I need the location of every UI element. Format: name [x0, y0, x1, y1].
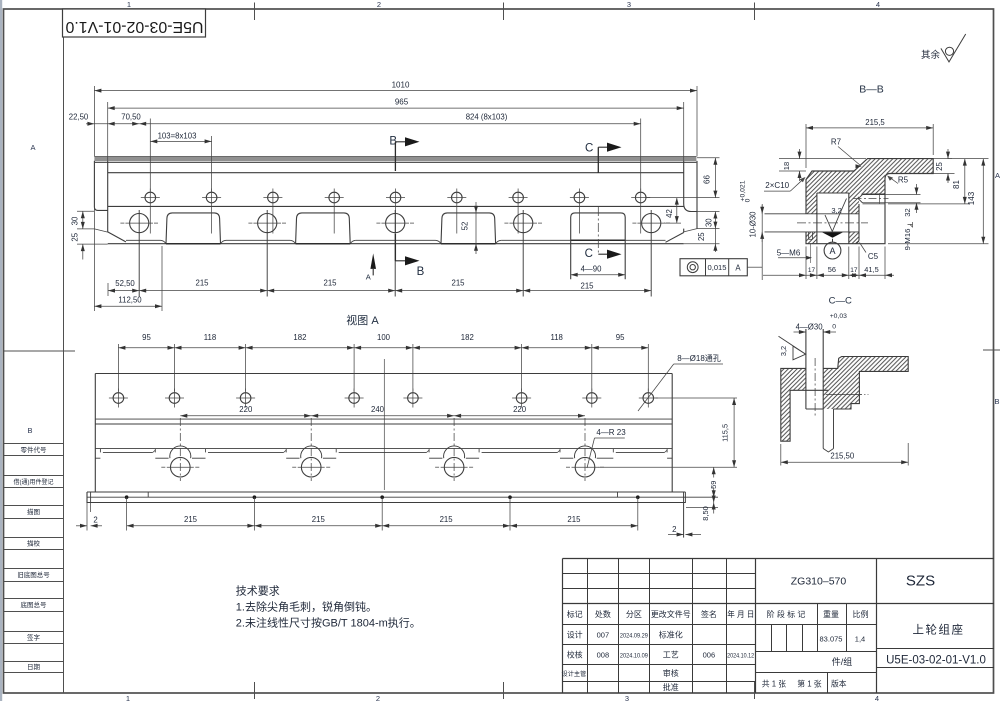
B-B outline — [806, 159, 933, 244]
view A base line stubs — [95, 457, 100, 459]
svg-text:0: 0 — [832, 323, 836, 330]
view A 8 through holes D18 — [113, 393, 124, 404]
datum feature box 0,015 A — [680, 259, 747, 276]
svg-text:215: 215 — [440, 515, 454, 524]
inverted drawing number box — [63, 9, 206, 37]
svg-text:B: B — [27, 426, 32, 435]
C-C hole D30 edges — [805, 329, 807, 409]
svg-text:2: 2 — [93, 516, 97, 525]
view A hole extension lines — [117, 344, 119, 392]
view A flange reference dots — [125, 495, 129, 499]
C-C centerline — [814, 358, 816, 416]
view arrow A — [370, 253, 376, 269]
svg-text:A: A — [829, 246, 835, 256]
svg-text:42: 42 — [665, 209, 674, 218]
svg-text:借(通)用件登记: 借(通)用件登记 — [14, 478, 54, 486]
svg-text:25: 25 — [697, 232, 706, 241]
svg-text:C: C — [585, 142, 593, 154]
svg-text:1,4: 1,4 — [855, 634, 865, 643]
svg-text:81: 81 — [952, 180, 961, 189]
view A slot centerlines — [179, 418, 181, 481]
view A 215 dims bottom — [86, 503, 88, 531]
svg-text:底图总号: 底图总号 — [21, 600, 48, 609]
svg-text:3: 3 — [625, 694, 629, 701]
dimension 52,50 — [108, 290, 139, 292]
svg-text:2.未注线性尺寸按GB/T 1804-m执行。: 2.未注线性尺寸按GB/T 1804-m执行。 — [236, 615, 421, 629]
B-B M6 tapped hole — [808, 232, 810, 239]
dimension 824 (8x103) — [139, 123, 641, 125]
view A dim 2 right — [668, 534, 684, 536]
B-B step face and C5 chamfer — [858, 204, 860, 241]
svg-text:+0,03: +0,03 — [830, 313, 847, 320]
svg-text:52: 52 — [461, 222, 470, 231]
svg-text:版本: 版本 — [831, 679, 847, 689]
svg-text:8—Ø18通孔: 8—Ø18通孔 — [677, 353, 721, 363]
svg-text:215: 215 — [567, 515, 581, 524]
C-C slot below hole — [822, 409, 824, 449]
svg-text:B: B — [994, 397, 999, 406]
svg-text:824 (8x103): 824 (8x103) — [466, 112, 508, 121]
C-C hatched main block — [823, 357, 908, 410]
svg-text:处数: 处数 — [595, 609, 611, 619]
svg-text:215: 215 — [323, 279, 337, 288]
svg-text:标准化: 标准化 — [659, 630, 683, 640]
svg-text:2024.10.09: 2024.10.09 — [620, 652, 649, 659]
zone tick marks — [254, 3, 256, 21]
right end profile — [692, 161, 698, 212]
view A dims 220/240/220 — [180, 415, 585, 417]
svg-text:U5E-03-02-01-V1.0: U5E-03-02-01-V1.0 — [886, 655, 986, 667]
svg-text:第 1 张: 第 1 张 — [797, 679, 821, 689]
svg-text:215: 215 — [451, 279, 465, 288]
svg-text:阶 段 标 记: 阶 段 标 记 — [767, 609, 806, 619]
svg-text:118: 118 — [204, 333, 216, 342]
svg-text:4: 4 — [876, 0, 880, 9]
svg-text:215: 215 — [195, 279, 209, 288]
view A dim 2 left — [76, 525, 87, 527]
svg-text:4: 4 — [875, 694, 879, 701]
svg-text:41,5: 41,5 — [864, 265, 878, 274]
svg-text:重量: 重量 — [823, 609, 839, 619]
svg-text:1010: 1010 — [392, 81, 410, 90]
svg-text:3,2: 3,2 — [779, 346, 788, 356]
view A body outline — [95, 373, 672, 375]
svg-text:215,5: 215,5 — [865, 118, 885, 127]
svg-text:A: A — [735, 263, 741, 272]
svg-text:70,50: 70,50 — [121, 113, 141, 122]
svg-text:其余: 其余 — [921, 49, 941, 61]
extension lines bottom — [93, 161, 95, 311]
row line (top of bottom flange) — [108, 205, 684, 207]
svg-text:B: B — [417, 266, 425, 278]
dimension 215,5 — [805, 124, 807, 168]
svg-text:1: 1 — [127, 0, 131, 9]
svg-text:52,50: 52,50 — [115, 279, 135, 288]
svg-text:182: 182 — [293, 333, 306, 342]
svg-text:视图 A: 视图 A — [346, 313, 379, 327]
svg-text:0,015: 0,015 — [707, 263, 726, 272]
dimension 30 right — [697, 211, 720, 213]
view A top dim chain — [118, 347, 648, 349]
view A large circles R23 — [171, 457, 191, 477]
B-B hatched section — [806, 159, 933, 244]
view A top land line (full) — [95, 448, 672, 450]
dimension 66 — [697, 157, 720, 159]
bottom tabs — [166, 213, 221, 244]
svg-text:+0,021: +0,021 — [740, 180, 747, 201]
svg-text:年 月 日: 年 月 日 — [727, 609, 754, 619]
svg-text:118: 118 — [550, 333, 562, 342]
C-C dimension 215,50 — [780, 444, 782, 466]
svg-text:旧底图总号: 旧底图总号 — [17, 570, 50, 579]
svg-text:220: 220 — [239, 405, 253, 414]
svg-text:A: A — [366, 272, 371, 281]
svg-text:4—90: 4—90 — [581, 265, 602, 274]
view A centerline — [383, 359, 385, 490]
view A dim 59 — [713, 467, 715, 502]
svg-text:审核: 审核 — [663, 668, 679, 678]
svg-text:2024.10.12: 2024.10.12 — [727, 652, 754, 659]
svg-text:C—C: C—C — [829, 295, 852, 306]
svg-text:2: 2 — [376, 694, 380, 701]
left margin attached boxes — [4, 443, 64, 445]
svg-text:215: 215 — [184, 515, 198, 524]
view A bottom flange — [87, 491, 685, 493]
view A R23 slot end arcs — [170, 446, 191, 458]
B-B cavity — [816, 193, 818, 244]
tab bottom heavy edges — [166, 243, 221, 245]
svg-text:2×C10: 2×C10 — [765, 181, 789, 190]
svg-text:22,50: 22,50 — [69, 113, 89, 122]
svg-text:83.075: 83.075 — [820, 634, 843, 643]
svg-text:批准: 批准 — [663, 682, 679, 692]
B-B M16 hole — [863, 194, 885, 196]
dimension 25 left — [82, 244, 84, 259]
dimension 965 — [108, 107, 684, 109]
svg-text:共 1 张: 共 1 张 — [762, 680, 786, 689]
svg-text:更改文件号: 更改文件号 — [651, 609, 691, 619]
svg-text:1: 1 — [126, 694, 130, 701]
svg-text:描图: 描图 — [27, 507, 40, 516]
svg-text:18: 18 — [782, 162, 791, 170]
svg-text:215,50: 215,50 — [830, 451, 855, 460]
open slot 4-90 — [571, 213, 626, 279]
svg-text:技术要求: 技术要求 — [236, 585, 280, 598]
dimension 30 left — [77, 210, 94, 212]
svg-text:C5: C5 — [868, 252, 879, 261]
dimension 52 (tab height) — [475, 202, 477, 254]
svg-text:1.去除尖角毛刺，锐角倒钝。: 1.去除尖角毛刺，锐角倒钝。 — [236, 600, 377, 614]
bottom edge (full) — [108, 243, 684, 245]
left end profile — [94, 161, 107, 211]
sheet left edge — [0, 0, 2, 701]
svg-text:25: 25 — [935, 162, 944, 171]
rail wear strip (thick gray band) — [94, 156, 696, 161]
9 small holes (103 pitch) — [145, 192, 156, 203]
svg-text:标记: 标记 — [567, 609, 583, 619]
binding margin line — [63, 9, 65, 693]
svg-text:C: C — [585, 248, 593, 260]
svg-text:008: 008 — [597, 651, 610, 660]
svg-text:设计主管: 设计主管 — [562, 670, 587, 678]
dimension 22,50 — [86, 123, 94, 125]
svg-text:5—M6: 5—M6 — [777, 249, 801, 258]
dimension 103=8x103 — [150, 140, 211, 142]
svg-text:215: 215 — [580, 281, 594, 290]
dimension 25 flange — [933, 158, 952, 160]
svg-text:A: A — [995, 171, 1000, 180]
svg-text:95: 95 — [616, 333, 625, 342]
B-B bottom dimensions 17 56 17 41,5 — [805, 247, 807, 280]
svg-text:SZS: SZS — [906, 572, 935, 589]
dimension 4-90 — [571, 274, 626, 276]
dimension 25 right — [684, 243, 720, 245]
svg-text:4—R 23: 4—R 23 — [596, 428, 626, 437]
svg-text:100: 100 — [377, 333, 391, 342]
C-C outline left wall — [781, 368, 829, 441]
svg-text:25: 25 — [71, 232, 80, 241]
B-B bore D30 lines — [765, 213, 860, 215]
svg-text:零件代号: 零件代号 — [21, 445, 48, 454]
view A bench lands — [99, 449, 101, 453]
svg-text:签名: 签名 — [701, 609, 717, 619]
slot centerline — [597, 207, 599, 254]
svg-text:8,50: 8,50 — [701, 506, 710, 520]
dimension 42 — [664, 222, 681, 224]
C-C M16 hole trace — [826, 394, 862, 396]
svg-text:设计: 设计 — [567, 630, 583, 640]
svg-text:9-M16: 9-M16 — [903, 229, 912, 251]
svg-text:4—Ø30: 4—Ø30 — [796, 322, 824, 331]
svg-text:ZG310–570: ZG310–570 — [791, 575, 847, 587]
svg-text:17: 17 — [808, 267, 816, 274]
svg-text:17: 17 — [850, 267, 858, 274]
svg-text:3: 3 — [627, 0, 631, 9]
svg-text:比例: 比例 — [853, 609, 869, 619]
extension lines top — [93, 86, 95, 156]
svg-text:59: 59 — [709, 481, 718, 489]
svg-text:B—B: B—B — [859, 83, 884, 95]
dimension 81 — [888, 203, 970, 205]
svg-text:965: 965 — [395, 98, 409, 107]
dimension 112,50 — [94, 305, 162, 307]
body top edge line — [108, 172, 684, 174]
tab base fillets — [161, 240, 166, 243]
svg-text:件/组: 件/组 — [832, 656, 853, 667]
svg-text:0: 0 — [745, 198, 752, 202]
svg-text:30: 30 — [71, 216, 80, 225]
svg-text:66: 66 — [703, 175, 712, 184]
svg-text:007: 007 — [597, 631, 610, 640]
svg-text:182: 182 — [461, 333, 474, 342]
svg-text:103=8x103: 103=8x103 — [158, 132, 197, 141]
svg-text:日期: 日期 — [27, 663, 41, 671]
svg-text:校核: 校核 — [567, 650, 583, 660]
svg-text:工艺: 工艺 — [663, 651, 679, 660]
svg-text:112,50: 112,50 — [118, 296, 142, 305]
dimensions 215 row — [139, 290, 651, 292]
svg-text:R5: R5 — [898, 176, 909, 185]
datum A symbol — [822, 232, 843, 238]
svg-text:32: 32 — [903, 208, 912, 217]
svg-text:2: 2 — [377, 0, 381, 9]
svg-text:56: 56 — [828, 265, 836, 274]
svg-text:215: 215 — [312, 515, 326, 524]
svg-text:3,2: 3,2 — [831, 206, 842, 215]
C-C hatched left wall — [781, 368, 806, 441]
dimension 10-D30 with tolerance — [761, 205, 763, 280]
dimension 143 — [948, 158, 989, 160]
svg-text:上轮组座: 上轮组座 — [913, 623, 965, 637]
svg-text:220: 220 — [513, 405, 527, 414]
dimension 1010 — [94, 90, 697, 92]
svg-text:R7: R7 — [831, 138, 842, 147]
svg-text:2: 2 — [672, 525, 676, 534]
svg-text:95: 95 — [142, 333, 151, 342]
svg-text:143: 143 — [967, 191, 976, 205]
svg-text:描校: 描校 — [27, 539, 41, 548]
dimension 18 — [779, 158, 866, 160]
bottom recess line segments — [126, 239, 161, 241]
svg-text:A: A — [30, 143, 35, 152]
svg-text:115,5: 115,5 — [720, 424, 729, 442]
svg-text:30: 30 — [704, 218, 713, 227]
dimension 70,50 — [94, 123, 139, 125]
view A dim 115,5 — [656, 397, 738, 399]
dimension 9-M16 depth 32 — [885, 194, 921, 196]
view A dim 8,50 — [713, 488, 715, 498]
rail lower edge line — [94, 161, 696, 163]
svg-text:签字: 签字 — [27, 633, 41, 642]
svg-text:2024.09.29: 2024.09.29 — [620, 632, 649, 639]
svg-text:分区: 分区 — [626, 610, 642, 619]
svg-text:U5E-03-02-01-V1.0: U5E-03-02-01-V1.0 — [65, 18, 203, 35]
svg-text:10-Ø30: 10-Ø30 — [749, 211, 758, 238]
svg-text:006: 006 — [703, 651, 716, 660]
svg-text:240: 240 — [371, 405, 385, 414]
C-C outline main block — [823, 357, 908, 410]
5 large holes (215 pitch, 10-D30) — [130, 214, 149, 233]
